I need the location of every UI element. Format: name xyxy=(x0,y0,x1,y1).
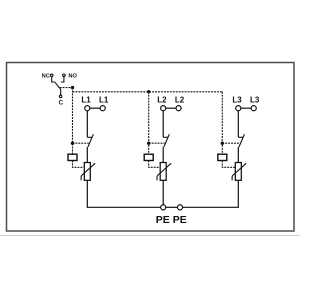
wire: dashed vertical L3 xyxy=(221,92,223,154)
wire NC lead xyxy=(52,77,55,82)
wire: upper lead L3 xyxy=(237,111,239,138)
svg-text:L3: L3 xyxy=(232,95,242,104)
wire: dashed stub to switch L3 xyxy=(222,142,240,144)
node: linkage junction L3 xyxy=(221,142,224,145)
svg-text:L3: L3 xyxy=(250,95,260,104)
wire NO lead xyxy=(61,77,64,82)
wire: PE link xyxy=(166,206,178,208)
wire: dashed stub to switch L2 xyxy=(149,142,165,144)
wire: lower lead L3 xyxy=(237,147,239,163)
wire: upper lead L1 xyxy=(86,111,88,138)
wire: dashed box to varistor L3 xyxy=(222,161,235,168)
terminal L3 b xyxy=(251,106,256,111)
varistor RV3 xyxy=(232,163,246,181)
varistor RV1 xyxy=(81,163,95,181)
svg-text:L1: L1 xyxy=(99,95,109,104)
wire: upper lead L2 xyxy=(162,111,164,138)
svg-text:NO: NO xyxy=(68,73,77,79)
terminal L1 b xyxy=(100,106,105,111)
remote contact lever S1 xyxy=(55,82,61,95)
disconnect switch L1 xyxy=(87,136,92,138)
terminal PE b xyxy=(177,205,182,210)
wire: L2 to PE terminal xyxy=(162,180,164,204)
terminal L1 a xyxy=(85,106,90,111)
terminal L3 a xyxy=(236,106,241,111)
node: linkage junction L1 xyxy=(71,142,74,145)
wire: dashed vertical L1 xyxy=(72,88,74,155)
svg-text:C: C xyxy=(59,99,64,106)
svg-text:PE: PE xyxy=(156,214,170,226)
terminal NO xyxy=(63,74,66,77)
thermal disconnect box F3 xyxy=(218,154,227,160)
svg-text:L2: L2 xyxy=(157,95,167,104)
wire: lower lead L2 xyxy=(162,147,164,163)
node: junction at linkage xyxy=(71,86,74,89)
disconnect switch L2 xyxy=(163,136,168,138)
svg-text:PE: PE xyxy=(173,214,187,226)
wire: bridge L3 xyxy=(241,107,251,109)
wire: dashed vertical L2 xyxy=(148,92,150,154)
wire: bridge L1 xyxy=(90,107,100,109)
terminal PE a xyxy=(161,205,166,210)
terminal C xyxy=(59,95,62,98)
wire: bridge L2 xyxy=(166,107,176,109)
svg-text:NC: NC xyxy=(42,73,50,79)
terminal NC xyxy=(50,74,53,77)
wire: L3 to PE bus xyxy=(183,180,239,207)
thermal disconnect box F2 xyxy=(144,154,153,160)
svg-text:L1: L1 xyxy=(81,95,91,104)
wire: dashed stub to switch L1 xyxy=(73,142,89,144)
wire: L1 to PE bus xyxy=(87,180,160,207)
disconnect switch L3 xyxy=(238,136,243,138)
wire: dashed bus horizontal xyxy=(73,91,223,93)
terminal L2 a xyxy=(161,106,166,111)
varistor RV2 xyxy=(157,163,171,181)
terminal L2 b xyxy=(176,106,181,111)
wire: dashed box to varistor L2 xyxy=(149,161,161,168)
wire: lower lead L1 xyxy=(86,147,88,163)
wire: dashed linkage from lever xyxy=(60,87,73,89)
node: bus junction L2 xyxy=(147,90,150,93)
wire: dashed box to varistor L1 xyxy=(73,161,85,168)
svg-text:L2: L2 xyxy=(175,95,185,104)
node: linkage junction L2 xyxy=(147,142,150,145)
thermal disconnect box F1 xyxy=(68,154,77,160)
